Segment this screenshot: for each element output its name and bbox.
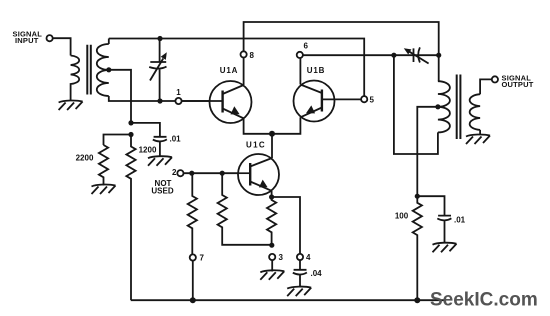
svg-text:SeekIC.com: SeekIC.com <box>430 290 538 311</box>
capacitor C5 .01 <box>437 216 451 244</box>
node rail terminal 7 <box>190 297 196 303</box>
bottom rail <box>131 299 445 301</box>
node C2 right <box>436 53 441 58</box>
wire rail A (terminal 8 over to right) <box>244 22 439 55</box>
transformer T2 secondary winding <box>470 94 480 130</box>
svg-text:2: 2 <box>172 168 177 177</box>
wire terminal 7 to bottom rail <box>192 261 194 301</box>
signal output label <box>502 73 534 89</box>
svg-text:.01: .01 <box>454 216 466 225</box>
wire emitter node to terminal 4 <box>272 197 300 254</box>
wire U1C emitter down <box>271 191 273 197</box>
output terminal <box>492 76 498 82</box>
svg-text:6: 6 <box>304 42 309 51</box>
node var cap C1 top <box>157 36 162 41</box>
transistor U1C <box>238 154 279 195</box>
node base R3 <box>189 171 194 176</box>
transformer T1 secondary winding <box>97 44 109 96</box>
svg-text:.04: .04 <box>311 269 323 278</box>
wire node to C5 <box>417 196 444 215</box>
ground (C3) <box>148 156 172 166</box>
svg-text:USED: USED <box>151 187 173 196</box>
node bias lower <box>128 132 133 137</box>
transformer T2 core <box>457 75 461 140</box>
svg-text:OUTPUT: OUTPUT <box>502 80 534 89</box>
svg-text:5: 5 <box>370 96 375 105</box>
node bias top <box>128 120 133 125</box>
resistor R3 (to terminal 7) <box>188 173 197 254</box>
node U1C emitter <box>269 194 274 199</box>
wire C2 right node down to T2 primary top <box>438 55 440 81</box>
arrow of C1 <box>150 59 163 81</box>
wire terminal 6 to C2 and output transformer <box>303 54 439 56</box>
resistor R2 1200 <box>126 135 135 301</box>
capacitor C4 .04 <box>293 260 307 287</box>
node common emitters / U1C collector <box>269 131 275 137</box>
svg-text:2200: 2200 <box>76 154 94 163</box>
node T1 secondary tap <box>106 67 111 72</box>
terminal 5 <box>361 96 367 102</box>
transistor U1A <box>210 81 252 123</box>
ground (C4) <box>287 287 311 297</box>
node above terminal 3 <box>269 243 274 248</box>
svg-text:100: 100 <box>395 212 409 221</box>
wire T2 secondary bottom to ground <box>479 130 481 135</box>
resistor R1 2200 <box>99 145 108 186</box>
capacitor C2 variable <box>414 47 420 62</box>
svg-text:4: 4 <box>306 253 311 262</box>
terminal 4 <box>297 254 303 260</box>
ground (terminal 3) <box>260 270 284 280</box>
signal input label <box>13 30 43 46</box>
wire terminal 2 to U1C base <box>184 172 251 174</box>
transformer T2 primary winding <box>438 81 450 132</box>
wire T1 secondary top to rail <box>108 39 110 45</box>
transformer T1 primary winding <box>71 56 80 102</box>
svg-text:.01: .01 <box>170 135 182 144</box>
wire terminal 1 to U1A base <box>182 100 223 102</box>
svg-text:7: 7 <box>200 254 205 263</box>
node rail 100 ohm <box>414 297 420 303</box>
terminal 6 <box>297 52 303 58</box>
svg-text:3: 3 <box>279 253 284 262</box>
svg-text:U1A: U1A <box>220 66 238 75</box>
wire terminal 3 to ground <box>271 260 273 271</box>
wire U1A emitter to common node <box>244 118 272 134</box>
wire T2 secondary top to output terminal <box>480 79 492 94</box>
transformer T1 core <box>87 45 91 95</box>
transistor U1B <box>294 81 335 122</box>
terminal 3 <box>269 254 275 260</box>
capacitor C1 variable <box>149 39 166 102</box>
resistor R5 (emitter) <box>267 197 276 245</box>
wire rail B (to terminal 5) <box>109 39 364 97</box>
terminal 1 <box>175 98 181 104</box>
wire common node to U1C collector <box>271 134 273 158</box>
svg-text:U1C: U1C <box>246 141 266 150</box>
resistor R4 (base to node 3) <box>218 173 272 245</box>
capacitor C3 .01 <box>153 137 167 157</box>
svg-text:8: 8 <box>250 51 255 60</box>
ground (C5) <box>433 243 457 253</box>
wire tap down to bias node <box>109 70 131 123</box>
wire input to transformer primary <box>53 38 71 55</box>
wire to 2200 resistor <box>104 135 132 146</box>
node 100 ohm top <box>415 194 420 199</box>
node base R4 <box>220 171 225 176</box>
node C1 bottom <box>157 98 162 103</box>
ground (output secondary) <box>466 134 490 144</box>
node C2 left <box>391 53 396 58</box>
svg-text:INPUT: INPUT <box>15 36 39 45</box>
terminal 2 <box>177 170 183 176</box>
node T2 primary tap <box>435 104 440 109</box>
wire bias node to C3 <box>131 123 160 136</box>
svg-text:1200: 1200 <box>139 146 157 155</box>
wire C2 left node down and around to T2 primary bottom <box>394 55 438 154</box>
svg-text:U1B: U1B <box>307 66 325 75</box>
wire U1B collector to terminal 6 <box>299 58 301 85</box>
resistor R6 100 <box>413 196 422 300</box>
arrow of C2 <box>409 51 429 63</box>
terminal 7 <box>190 254 196 260</box>
wire tap to 100 ohm node <box>417 107 438 196</box>
wire T1 secondary bottom to terminal 1 <box>109 96 176 101</box>
ground (R1) <box>92 184 116 194</box>
wire U1A collector to terminal 8 <box>243 58 245 86</box>
wire U1B emitter to common node <box>272 117 300 134</box>
ground (input primary) <box>59 100 83 110</box>
terminal 8 <box>241 51 247 57</box>
svg-text:1: 1 <box>176 88 181 97</box>
input terminal <box>47 35 53 41</box>
